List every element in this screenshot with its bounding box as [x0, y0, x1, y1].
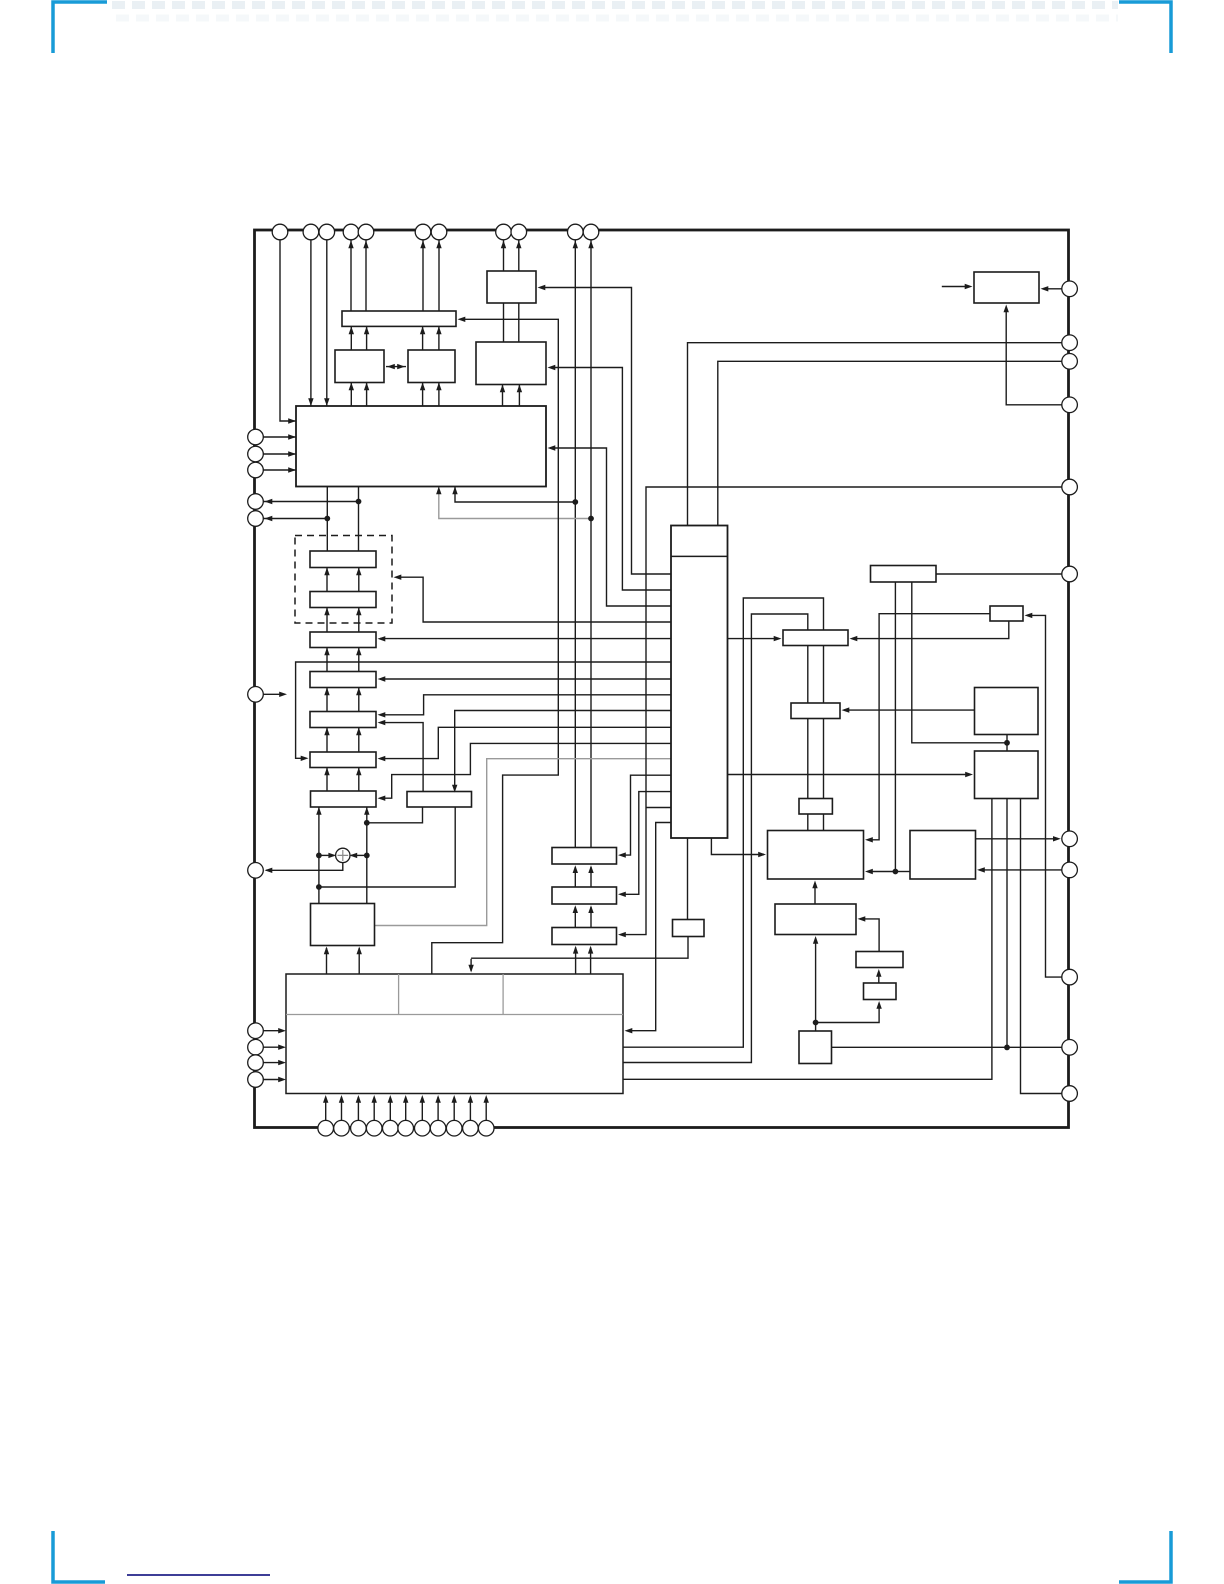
wire bottom box to T3 a [575, 948, 577, 975]
wire decoder to B3 a [502, 385, 504, 407]
arrowhead into pin L6 [265, 868, 273, 873]
block Y [856, 952, 903, 968]
wire input to bottom box top [470, 959, 472, 971]
wire pin R8 to W right input [980, 869, 1062, 871]
pin circle top 5 [358, 224, 374, 240]
arrowhead into V bottom [812, 881, 817, 889]
wire branch to pin L4 [264, 501, 359, 503]
wire box A to pin8 [503, 240, 505, 271]
arrowhead into R1 top [452, 785, 457, 793]
block S6 [310, 752, 376, 768]
wire pin L10 to bottom box [264, 1062, 283, 1064]
junction D-V-W [893, 869, 899, 875]
wire B1-B2 bidirectional [386, 366, 406, 368]
wire into summing right [351, 854, 367, 856]
wire S-chain b2 [358, 608, 360, 633]
arrowhead into T2 b [588, 905, 593, 913]
arrowhead into top pin [348, 241, 353, 249]
block S1 [310, 551, 376, 568]
wire tall box to S3 input [380, 638, 671, 640]
wire bottom box output to K [623, 799, 992, 1080]
block E [990, 606, 1023, 621]
arrowhead into S4 b [356, 688, 361, 696]
wire V2 gray branch to decoder bottom [439, 487, 591, 519]
wire S-chain a4 [326, 688, 328, 712]
wire bottom box to M b [358, 948, 360, 974]
block main decoder [296, 406, 546, 487]
wire bus bar to pin7 [438, 240, 440, 326]
arrowhead into S5 right a [378, 712, 386, 717]
arrowhead into top pin [501, 241, 506, 249]
wire tall box to S5 input a [380, 695, 671, 715]
wire pin B8 to bottom box [437, 1097, 439, 1120]
arrowhead into decoder bottom b [436, 487, 441, 495]
pin circle bottom 11 [478, 1120, 494, 1136]
wire long vertical net V2 [590, 240, 592, 848]
arrowhead into S3 right [378, 636, 386, 641]
arrowhead into bottom box bottom [468, 1095, 473, 1103]
wire F2 to F3 b [823, 719, 825, 799]
arrowhead into Z bottom [876, 1001, 881, 1009]
wire bus bar to pin5 [365, 240, 367, 326]
arrowhead into decoder left 1 [288, 418, 296, 423]
pin circle right 3 [1062, 354, 1078, 370]
pin circle right 10 [1062, 1040, 1078, 1056]
wire S-chain b3 [358, 648, 360, 672]
arrowhead into T1 right [618, 852, 626, 857]
junction sum right [364, 853, 370, 859]
arrowhead into top pin [363, 241, 368, 249]
wire tall box to dashed box input [396, 577, 671, 622]
arrowhead into bottom box bottom [323, 1095, 328, 1103]
block T2 [552, 887, 617, 904]
arrowhead into pin L5 [265, 516, 273, 521]
wire tall box branch to T3 net [646, 807, 671, 809]
arrowhead into bottom box top [468, 965, 473, 973]
wire pin B11 to bottom box [485, 1097, 487, 1120]
arrowhead into B3 right [548, 365, 556, 370]
wire bottom box to bus bar [432, 319, 559, 974]
wire R1 bottom b to M net [319, 807, 455, 887]
pin circle right 2 [1062, 335, 1078, 351]
block P [974, 272, 1039, 303]
wire pin L8 to bottom box [264, 1030, 283, 1032]
pin circle bottom 9 [446, 1120, 462, 1136]
wire B1 to bus bar b [366, 326, 368, 350]
arrowhead into decoder left 3 [288, 451, 296, 456]
wire stub input to P [942, 286, 970, 288]
block T3 [552, 928, 617, 945]
wire pin R5 to T3 input [621, 487, 1062, 935]
wire S-chain a2 [326, 608, 328, 633]
block J [975, 688, 1039, 735]
arrowhead B1-B2 left [387, 364, 395, 369]
wire bottom box output to F1 b [623, 614, 808, 1063]
wire pin B6 to bottom box [405, 1097, 407, 1120]
arrowhead into P bottom [1004, 305, 1009, 313]
junction K-AA [1004, 1045, 1010, 1051]
wire D output to J-K net [912, 582, 1007, 743]
wire X to V bottom [814, 883, 816, 904]
junction V2-decoder [588, 516, 594, 522]
junction to pin L5 [324, 516, 330, 522]
block G2 [673, 920, 705, 937]
block Z [864, 983, 897, 1000]
arrowhead into bus bar bottom [436, 326, 441, 334]
wire T2 to T1 a [574, 867, 576, 887]
arrowhead into S6 right [378, 756, 386, 761]
arrowhead into top pin [436, 241, 441, 249]
arrowhead into bus bar right [458, 317, 466, 322]
crop mark top-right [1119, 2, 1171, 53]
crop mark top-left [53, 2, 107, 53]
arrowhead into Y bottom [876, 969, 881, 977]
pin circle left 1 [248, 429, 264, 445]
wire pin B7 to bottom box [421, 1097, 423, 1120]
crop mark bottom-left [53, 1531, 105, 1582]
wire K to pin R11 [1021, 799, 1063, 1094]
pin circle left 7 [248, 863, 264, 879]
wire tall box to V left input [711, 838, 764, 855]
arrowhead into E right [1025, 613, 1033, 618]
block S4 [310, 672, 376, 688]
arrowhead into S2 a [324, 608, 329, 616]
arrowhead into decoder right [548, 445, 556, 450]
wire Y to X right input [860, 919, 879, 952]
arrowhead into S7 a [316, 807, 321, 815]
arrowhead into bottom box bottom [484, 1095, 489, 1103]
block M [311, 904, 375, 946]
block S5 [310, 712, 376, 728]
wire tall box to T2 input [621, 792, 671, 895]
arrowhead into B2 bottom [420, 383, 425, 391]
block D [871, 566, 937, 583]
arrowhead into T1 b [588, 865, 593, 873]
arrowhead into S6 a [324, 768, 329, 776]
pin circle bottom 5 [383, 1120, 399, 1136]
wire M to S7 b [366, 791, 368, 904]
wire decoder to B1 a [350, 383, 352, 407]
arrowhead into bottom box bottom [372, 1095, 377, 1103]
wire tall box to S7 input [380, 743, 671, 798]
block S2 [310, 592, 376, 608]
arrowhead into B1 bottom [364, 383, 369, 391]
arrowhead into T2 right [618, 892, 626, 897]
wire box A to pin9 [518, 240, 520, 271]
arrowhead into top pin [573, 241, 578, 249]
arrowhead into S2 b [356, 608, 361, 616]
arrowhead into bottom box right [625, 1028, 633, 1033]
arrowhead into bottom box bottom [420, 1095, 425, 1103]
block F3 [799, 799, 832, 815]
wire pin R2 to tall box top a [688, 343, 1062, 526]
arrowhead into top pin [420, 241, 425, 249]
crop mark bottom-right [1119, 1531, 1171, 1582]
pin circle bottom 3 [351, 1120, 367, 1136]
arrowhead into pin L4 [265, 499, 273, 504]
pin circle top 1 [272, 224, 288, 240]
wire bus bar to pin4 [350, 240, 352, 326]
wire decoder to B3 b [518, 385, 520, 407]
wire AA up to X bottom [815, 939, 817, 1032]
wire decoder to S1 b [358, 487, 360, 552]
wire S-chain b4 [358, 688, 360, 712]
wire tall box to T1 input [621, 775, 671, 855]
arrowhead into M bottom a [324, 947, 329, 955]
wire F1 to F2 b [823, 646, 825, 704]
arrowhead into W right [977, 867, 985, 872]
wire pin L2 to decoder [264, 453, 297, 455]
IC outer border [255, 230, 1069, 1128]
arrowhead into decoder top a [308, 398, 313, 406]
arrowhead into summing right [349, 853, 357, 858]
wire decoder to B2 b [438, 383, 440, 407]
arrowhead into T1 a [573, 865, 578, 873]
arrowhead into pin R7 [1053, 836, 1061, 841]
wire T3 to T2 a [574, 907, 576, 928]
pin circle right 8 [1062, 862, 1078, 878]
pin circle top 4 [343, 224, 359, 240]
page top faint perforation dashes [112, 1, 1118, 9]
wire B2 to bus bar b [438, 326, 440, 350]
pin circle left 6 [248, 687, 264, 703]
pin circle right 7 [1062, 831, 1078, 847]
block B1 [335, 350, 384, 383]
pin circle bottom 2 [334, 1120, 350, 1136]
block T1 [552, 848, 617, 865]
wire S-chain a1 [326, 568, 328, 592]
arrowhead into top pin [588, 241, 593, 249]
wire T2 to T1 b [590, 867, 592, 887]
wire S-chain a3 [326, 648, 328, 672]
wire B1 to bus bar a [350, 326, 352, 350]
pin circle right 9 [1062, 969, 1078, 985]
wire AA net to Z bottom [816, 1004, 880, 1023]
wire tall box to R1 top input [455, 711, 671, 788]
arrowhead into F1 right [850, 636, 858, 641]
wire pin L11 to bottom box [264, 1079, 283, 1081]
wire bottom box output to F1 a [623, 598, 824, 1047]
summing junction [336, 848, 350, 862]
block tall servo box [671, 526, 728, 839]
arrowhead into P left [965, 284, 973, 289]
wire pin B10 to bottom box [469, 1097, 471, 1120]
arrowhead into bus bar bottom [349, 326, 354, 334]
footer rule [127, 1574, 270, 1576]
wire S-chain b6 [358, 768, 360, 792]
wire pin1 to main decoder left [280, 240, 296, 421]
arrowhead into B2 bottom [436, 383, 441, 391]
wire gray tall box to M box [375, 759, 672, 926]
wire bottom box to T3 b [590, 948, 592, 975]
block box A [487, 271, 536, 303]
junction D-J-K [1004, 740, 1010, 746]
arrowhead into decoder left 2 [288, 434, 296, 439]
wire pin R9 to E input [1027, 615, 1062, 977]
wire AA to pin R10 [832, 1046, 1063, 1048]
wire decoder to B1 b [366, 383, 368, 407]
pin circle right 6 [1062, 566, 1078, 582]
arrowhead into S6 left [301, 756, 309, 761]
wire bottom box to M a [326, 948, 328, 974]
wire pin B9 to bottom box [453, 1097, 455, 1120]
pin circle left 5 [248, 511, 264, 527]
arrowhead into bottom box left 2 [278, 1045, 286, 1050]
wire B3 to box A b [518, 303, 520, 342]
pin circle left 3 [248, 462, 264, 478]
wire long vertical net V1 [574, 240, 576, 848]
arrowhead into K left [965, 772, 973, 777]
arrowhead into bottom box bottom [452, 1095, 457, 1103]
arrowhead into B3 bottom [500, 385, 505, 393]
junction V1-decoder [572, 499, 578, 505]
arrowhead into dashed box [394, 575, 402, 580]
wire decoder to B2 a [422, 383, 424, 407]
pin circle bottom 6 [398, 1120, 414, 1136]
wire pin B5 to bottom box [389, 1097, 391, 1120]
wire D to V right input [868, 871, 896, 873]
block K [975, 751, 1039, 799]
arrowhead into S7 right [378, 796, 386, 801]
wire tall box to S6 right input [380, 727, 671, 758]
pin circle left 11 [248, 1072, 264, 1088]
arrowhead into bottom box left 4 [278, 1077, 286, 1082]
arrowhead into P right [1041, 286, 1049, 291]
arrowhead into box A right [538, 285, 546, 290]
pin circle bottom 7 [415, 1120, 431, 1136]
pin circle top 8 [496, 224, 512, 240]
wire pin L7 stub [264, 693, 284, 695]
junction AA net [813, 1020, 819, 1026]
block W [910, 831, 976, 880]
arrowhead into V left [758, 852, 766, 857]
block bus bar [342, 311, 456, 326]
pin circle left 4 [248, 494, 264, 510]
pin circle top 2 [303, 224, 319, 240]
wire tall box to bottom box right input [627, 823, 671, 1031]
wire tall box to G2 [687, 838, 689, 920]
pin circle top 3 [319, 224, 335, 240]
wire tall box to F1 left input [728, 638, 780, 640]
wire pin B2 to bottom box [341, 1097, 343, 1120]
pin circle bottom 4 [366, 1120, 382, 1136]
arrowhead into bus bar bottom [420, 326, 425, 334]
pin circle right 5 [1062, 479, 1078, 495]
arrowhead into S1 a [324, 568, 329, 576]
dashed group box [295, 536, 392, 624]
pin circle left 2 [248, 446, 264, 462]
arrowhead stub from pin L7 [279, 692, 287, 697]
junction sum left [316, 853, 322, 859]
block B3 [476, 342, 546, 385]
wire tall box to B3 input [550, 368, 671, 591]
arrowhead into F1 left [774, 636, 782, 641]
wire W to pin R7 [976, 838, 1059, 840]
pin circle left 10 [248, 1055, 264, 1071]
wire summing output to pin L6 [266, 862, 343, 870]
pin circle left 9 [248, 1039, 264, 1055]
pin circle left 8 [248, 1023, 264, 1039]
wire pin L3 to decoder [264, 469, 297, 471]
block V [768, 831, 864, 880]
arrowhead into bottom box bottom [356, 1095, 361, 1103]
arrowhead into T3 a [573, 946, 578, 954]
arrowhead into T3 right [618, 932, 626, 937]
arrowhead into bottom box left 3 [278, 1060, 286, 1065]
pin circle right 1 [1062, 281, 1078, 297]
arrowhead into S6 b [356, 768, 361, 776]
block B2 [408, 350, 455, 383]
arrowhead into bottom box bottom [403, 1095, 408, 1103]
wire tall box to decoder right input [550, 448, 671, 606]
block S7 [311, 791, 377, 807]
wire pin R1 to P [1043, 288, 1062, 290]
wire F2 to F3 a [807, 719, 809, 799]
wire tall box to K left input [728, 774, 971, 776]
arrowhead into S4 right [378, 676, 386, 681]
wire T3 to T2 b [590, 907, 592, 928]
wire B3 to box A a [503, 303, 505, 342]
wire pin B4 to bottom box [373, 1097, 375, 1120]
pin circle bottom 8 [430, 1120, 446, 1136]
arrowhead into S1 b [356, 568, 361, 576]
bottom box header cell divider a [398, 974, 400, 1015]
block bottom interface box [286, 974, 623, 1094]
wire tall box to S6 left input [296, 662, 671, 758]
wire pin R3 to tall box top b [718, 361, 1062, 525]
arrowhead into bus bar bottom [364, 326, 369, 334]
block F1 [783, 630, 848, 646]
wire tall box to S4 input [380, 678, 671, 680]
block F2 [791, 703, 840, 719]
wire K to AA net [1006, 799, 1008, 1048]
wire S-chain b1 [358, 568, 360, 592]
wire F3 to V a [807, 814, 809, 831]
arrowhead into decoder left 4 [288, 467, 296, 472]
wire into summing left [319, 854, 335, 856]
arrowhead into bottom box bottom [435, 1095, 440, 1103]
arrowhead into T3 b [588, 946, 593, 954]
wire Z to Y [878, 972, 880, 984]
wire E to F1 right input [852, 621, 1009, 639]
wire M to S7 a [318, 791, 320, 904]
arrowhead into M bottom b [357, 947, 362, 955]
wire pin L1 to decoder [264, 436, 297, 438]
wire V1 branch to decoder bottom [455, 487, 575, 503]
arrowhead into X bottom [813, 936, 818, 944]
arrowhead into X right [858, 916, 866, 921]
arrowhead into S3 a [324, 648, 329, 656]
arrowhead into S5 a [324, 728, 329, 736]
pin circle top 7 [431, 224, 447, 240]
arrowhead into decoder bottom a [452, 487, 457, 495]
wire pin R4 to P bottom [1006, 307, 1062, 405]
wire J to K [1006, 735, 1008, 752]
wire J to F2 right input [844, 709, 975, 711]
arrowhead into V right a [865, 837, 873, 842]
pin circle right 4 [1062, 397, 1078, 413]
bottom box header divider [286, 1014, 623, 1016]
arrowhead into V right b [865, 869, 873, 874]
wire pin3 down to main decoder top [326, 240, 328, 406]
wire D output down a [894, 582, 896, 872]
pin circle right 11 [1062, 1086, 1078, 1102]
wire pin B1 to bottom box [325, 1097, 327, 1120]
arrowhead into S7 b [364, 807, 369, 815]
arrowhead into S5 right b [378, 720, 386, 725]
wire tall box to box A input [540, 288, 671, 575]
pin circle top 10 [568, 224, 584, 240]
